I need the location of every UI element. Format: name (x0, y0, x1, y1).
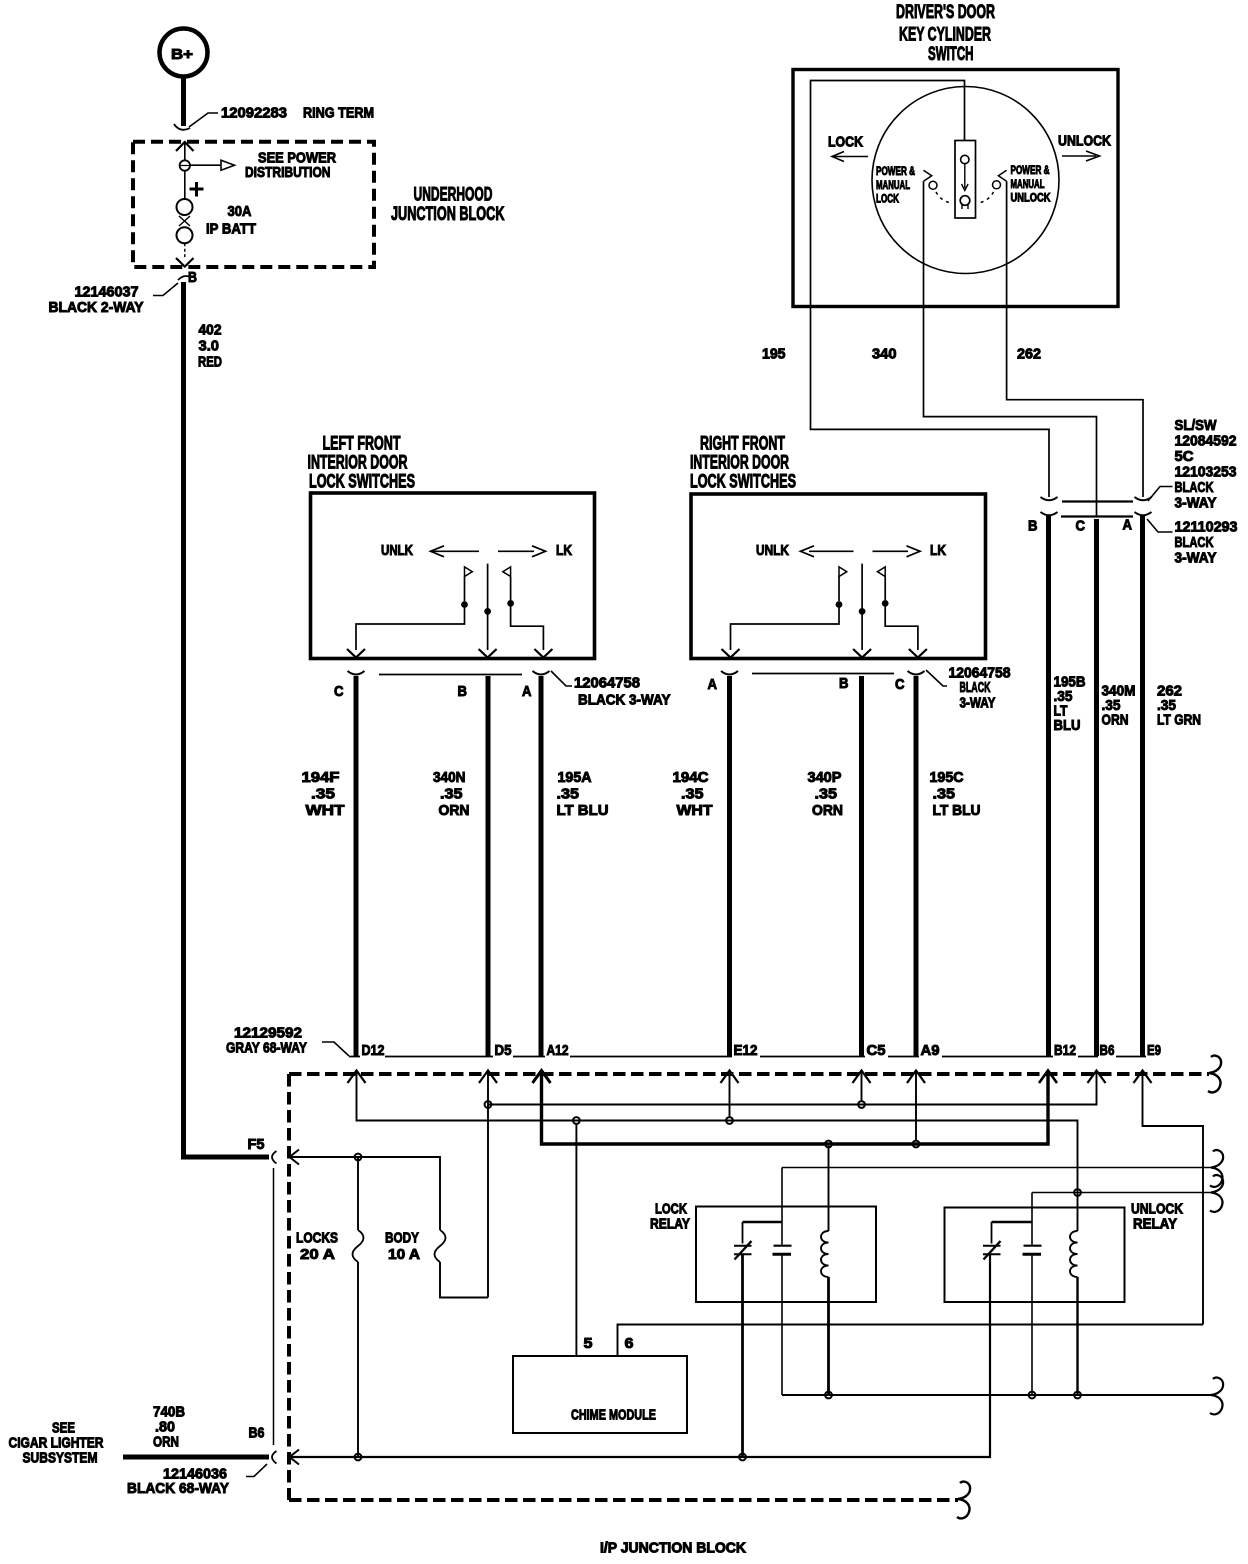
wire 262 from unlock contact to connector A (1007, 181, 1143, 497)
svg-text:INTERIOR DOOR: INTERIOR DOOR (690, 453, 789, 474)
unlock relay coil (1070, 1231, 1078, 1395)
junction dot C5 tap (858, 1101, 865, 1108)
key cylinder switch box (793, 70, 1118, 307)
connector 12110293 3-way (lower half) (1041, 512, 1152, 517)
svg-text:DISTRIBUTION: DISTRIBUTION (245, 164, 331, 181)
terminal arrow A9 (907, 1071, 925, 1084)
net A12/A9/B12 lock signal wire (542, 1071, 1049, 1145)
right box common wire (center pole) (859, 564, 866, 650)
wire 195A .35 LT BLU (left A to IP A12) (539, 676, 544, 1056)
svg-text:.35: .35 (440, 786, 463, 803)
underhood junction block dashed box (133, 142, 374, 267)
wire fuse to bottom terminal (dotted) (184, 243, 186, 258)
svg-text:GRAY 68-WAY: GRAY 68-WAY (226, 1040, 307, 1057)
svg-text:RING TERM: RING TERM (303, 105, 374, 122)
junction dot chime pin5 tap (573, 1117, 580, 1124)
svg-text:.35: .35 (815, 786, 838, 803)
svg-text:BLACK 3-WAY: BLACK 3-WAY (578, 692, 671, 709)
svg-text:402: 402 (199, 322, 222, 339)
key shaft with arrow (962, 164, 969, 191)
svg-text:ORN: ORN (439, 802, 470, 819)
wire label 262 .35 LT GRN (1157, 683, 1201, 729)
wire A9 stub (915, 1071, 917, 1141)
svg-text:ORN: ORN (153, 1434, 179, 1451)
svg-text:POWER &: POWER & (1011, 163, 1050, 177)
label 12110293 BLACK 3-WAY + leader (1147, 519, 1238, 567)
svg-text:LT BLU: LT BLU (933, 802, 981, 819)
svg-text:BLACK: BLACK (960, 679, 991, 696)
svg-text:LEFT FRONT: LEFT FRONT (323, 434, 401, 455)
wire 185 inside switch (common feed to key) (811, 81, 965, 307)
UNLOCK RELAY label (1131, 1201, 1183, 1233)
wire from B+ to underhood junction block (ring terminal end) (174, 76, 190, 130)
fuse label LOCKS 20 A (296, 1230, 338, 1264)
label 12064758 BLACK 3-WAY (left) + leader (551, 671, 671, 709)
left box lock branch wire to terminal A (511, 606, 544, 650)
svg-text:12084592: 12084592 (1175, 433, 1237, 450)
wire chime module pin 6 to E9 (618, 1325, 1204, 1357)
battery terminal B+ (160, 29, 208, 77)
wire label 195B .35 LT BLU (1054, 674, 1086, 735)
lock relay capacitor (773, 1168, 792, 1396)
fuse LOCKS 20A (353, 1230, 364, 1262)
svg-text:LOCK SWITCHES: LOCK SWITCHES (309, 472, 415, 493)
svg-text:.35: .35 (311, 786, 335, 803)
svg-text:F5: F5 (248, 1136, 265, 1153)
svg-text:12110293: 12110293 (1175, 519, 1238, 536)
svg-text:3-WAY: 3-WAY (960, 695, 996, 712)
terminal arrow D12 (348, 1071, 366, 1084)
unlock relay capacitor (1023, 1193, 1042, 1396)
POWER & MANUAL UNLOCK label (1011, 163, 1051, 205)
left box UNLK label + arrow (381, 542, 479, 559)
svg-text:SL/SW: SL/SW (1175, 417, 1218, 434)
lock relay switch contact (734, 1222, 752, 1260)
svg-text:WHT: WHT (677, 802, 713, 819)
LEFT FRONT INTERIOR DOOR LOCK SWITCHES title (308, 434, 416, 493)
fuse BODY 10A (435, 1230, 446, 1262)
svg-text:195: 195 (762, 346, 786, 363)
svg-text:B+: B+ (171, 46, 193, 63)
svg-text:3-WAY: 3-WAY (1175, 550, 1217, 567)
wire 402 3.0 RED (battery feed to F5) (178, 276, 269, 1157)
svg-text:262: 262 (1017, 346, 1041, 363)
svg-text:B6: B6 (249, 1425, 265, 1442)
svg-text:12146037: 12146037 (75, 284, 139, 301)
right box UNLK label + arrow (756, 542, 854, 559)
circuit break symbol at top dashed edge (1208, 1056, 1221, 1093)
svg-text:5C: 5C (1175, 448, 1194, 465)
wire splice to fuse (184, 171, 186, 199)
wire F5 feed to fuses (291, 1157, 440, 1230)
wire 194F .35 WHT (left C to IP D12) (354, 676, 359, 1056)
junction dot unlock cap ground (1029, 1392, 1036, 1399)
svg-text:LT GRN: LT GRN (1157, 712, 1201, 729)
terminal arrow B6 (1088, 1071, 1106, 1084)
wire 740B .80 ORN (cigar lighter feed) (123, 1455, 269, 1460)
connector 12092283 RING TERM label + leader (189, 105, 374, 128)
IP junction block dashed outline (left edge) (287, 1074, 291, 1500)
chime module box (513, 1356, 687, 1433)
wire 340P .35 ORN (right B to IP C5) (859, 676, 864, 1056)
connector cap at F5 (272, 1151, 277, 1164)
unlock contact (flag + contact circle + dashed travel arc) (979, 170, 1007, 203)
svg-text:D5: D5 (495, 1042, 512, 1059)
fuse label BODY 10 A (385, 1230, 420, 1264)
right front door lock switch box (691, 494, 986, 659)
wire label 740B .80 ORN (153, 1404, 185, 1451)
label 12064758 BLACK 3-WAY (right) + leader (926, 665, 1011, 712)
POWER & MANUAL LOCK label (876, 164, 915, 206)
wire 194C .35 WHT (right A to IP E12) (727, 676, 732, 1056)
svg-text:10 A: 10 A (388, 1246, 420, 1263)
key cylinder rotary face circle (872, 87, 1059, 274)
svg-text:JUNCTION BLOCK: JUNCTION BLOCK (391, 204, 505, 225)
svg-text:C: C (895, 676, 905, 693)
wire locks fuse to B6 row (357, 1262, 359, 1457)
terminal arrow E9 (1134, 1071, 1152, 1084)
fuse label 30A IP BATT (206, 203, 256, 238)
svg-text:BLACK: BLACK (1175, 479, 1214, 496)
net B6/locks-fuse/relay-commons wire (291, 1255, 990, 1457)
svg-text:3.0: 3.0 (199, 338, 220, 355)
junction dot unlock coil ground (1074, 1392, 1081, 1399)
wire inside junction block to splice (184, 142, 186, 161)
junction dot A9 tap (913, 1141, 920, 1148)
connector 12064758 3-way below left box (348, 671, 550, 675)
svg-text:MANUAL: MANUAL (1011, 177, 1045, 191)
svg-text:B: B (839, 675, 849, 692)
svg-text:BODY: BODY (385, 1230, 419, 1247)
svg-text:BLU: BLU (1054, 717, 1081, 734)
wire body fuse return to D5 (440, 1262, 488, 1298)
wire 195B .35 LT BLU (key switch B to IP B12) (1046, 516, 1051, 1056)
left box LK label + arrow (498, 542, 572, 559)
terminal arrow into junction block (top) (176, 142, 194, 151)
connector 12146037 BLACK 2-WAY label + leader (49, 283, 179, 316)
svg-text:30A: 30A (228, 203, 252, 220)
lock relay switch-capacitor tie wire (743, 1221, 783, 1223)
svg-text:SUBSYSTEM: SUBSYSTEM (23, 1450, 98, 1467)
junction dot D5 courtesy net (485, 1101, 492, 1108)
svg-text:BLACK 2-WAY: BLACK 2-WAY (49, 299, 144, 316)
svg-text:ORN: ORN (1102, 712, 1129, 729)
svg-text:5: 5 (584, 1335, 593, 1352)
F5 terminal arrow (power feed into block) (290, 1150, 300, 1165)
svg-text:INTERIOR DOOR: INTERIOR DOOR (308, 453, 408, 474)
svg-text:C: C (1076, 518, 1086, 535)
svg-text:RIGHT FRONT: RIGHT FRONT (700, 434, 785, 455)
svg-text:C5: C5 (867, 1042, 886, 1059)
lock relay coil (821, 1146, 829, 1395)
svg-text:.35: .35 (933, 786, 956, 803)
svg-text:BLACK 68-WAY: BLACK 68-WAY (127, 1480, 229, 1497)
svg-text:SWITCH: SWITCH (928, 44, 974, 65)
label SL/SW 12084592 5C 12103253 BLACK 3-WAY + leader (1148, 417, 1237, 512)
wire label 402 3.0 RED (198, 322, 222, 371)
svg-text:12103253: 12103253 (1175, 464, 1237, 481)
svg-text:12064758: 12064758 (574, 675, 640, 692)
svg-text:ORN: ORN (812, 802, 843, 819)
arrow to SEE POWER DISTRIBUTION (190, 160, 235, 170)
circuit break symbol at bottom dashed edge (957, 1482, 970, 1519)
junction dot unlock coil to node (1074, 1189, 1081, 1196)
svg-text:A: A (522, 683, 532, 700)
wire label 194C .35 WHT (673, 769, 713, 819)
left box unlock branch wire to terminal C (356, 607, 465, 650)
svg-text:LOCKS: LOCKS (296, 1230, 338, 1247)
IP junction block dashed outline (bottom edge) (289, 1498, 958, 1502)
svg-text:I/P JUNCTION BLOCK: I/P JUNCTION BLOCK (600, 1540, 746, 1557)
wire 340M .35 ORN (key switch C to IP B6) (1094, 519, 1099, 1056)
wire label 340N .35 ORN (433, 769, 470, 819)
terminal arrow E12 (721, 1071, 739, 1084)
wire 340N .35 ORN (left B to IP D5) (486, 676, 491, 1056)
IP connector face line (gray 68-way row) (349, 1056, 1146, 1058)
wire C5 stub (861, 1071, 863, 1102)
svg-text:195A: 195A (558, 769, 592, 786)
net D5/C5/B6 courtesy wire (488, 1071, 1097, 1105)
junction dot E12 tap (726, 1117, 733, 1124)
junction dot lock relay switch to B6 line (739, 1454, 746, 1461)
LOCK label + left arrow (828, 134, 868, 162)
wire label 340P .35 ORN (808, 769, 844, 819)
lock relay box (696, 1207, 876, 1303)
circuit break symbol lock output (1210, 1150, 1223, 1187)
terminal arrow A12 (533, 1071, 551, 1084)
right box unlock branch wire to terminal A (731, 607, 840, 650)
wire lock relay output to door motors (off-page) (782, 1167, 1211, 1169)
key pivot circle (961, 155, 969, 163)
svg-text:MANUAL: MANUAL (876, 178, 910, 192)
svg-text:194F: 194F (302, 769, 340, 786)
svg-text:20 A: 20 A (300, 1246, 335, 1263)
SEE CIGAR LIGHTER SUBSYSTEM label (9, 1420, 104, 1467)
wire lock relay switch to B6 net (741, 1255, 744, 1457)
wire D5 stub down to body fuse return (487, 1071, 489, 1298)
svg-text:B: B (1028, 518, 1038, 535)
wire 195C .35 LT BLU (right C to IP A9) (914, 676, 919, 1056)
svg-text:3-WAY: 3-WAY (1175, 495, 1217, 512)
lock contact (flag + contact circle + dashed travel arc) (924, 170, 952, 203)
left front door lock switch box (311, 493, 595, 659)
left box terminal arrows at box bottom (347, 649, 552, 658)
svg-text:340P: 340P (808, 769, 842, 786)
svg-text:E12: E12 (734, 1042, 758, 1059)
junction dot lock relay coil tap (825, 1141, 832, 1148)
wire label 340M .35 ORN (1102, 683, 1136, 729)
left box lock switch contact (flag, pole, junction) (503, 567, 514, 607)
terminal arrow out of junction block (bottom) (176, 258, 194, 267)
svg-text:C: C (334, 683, 344, 700)
junction dot lock coil ground (825, 1392, 832, 1399)
svg-text:DRIVER'S DOOR: DRIVER'S DOOR (896, 2, 995, 23)
svg-text:340: 340 (872, 346, 897, 363)
svg-text:LT BLU: LT BLU (557, 802, 609, 819)
svg-text:340N: 340N (433, 769, 466, 786)
wire unlock relay node to off-page (with coil junction) (1032, 1192, 1211, 1194)
wire chime module pin 5 feed (575, 1124, 577, 1356)
svg-text:KEY CYLINDER: KEY CYLINDER (899, 25, 991, 46)
svg-text:E9: E9 (1147, 1042, 1161, 1059)
svg-text:12092283: 12092283 (221, 105, 287, 122)
wire 185 from switch to connector B (811, 307, 1050, 498)
SEE POWER DISTRIBUTION label (245, 150, 336, 181)
label 12129592 GRAY 68-WAY + leader (226, 1025, 349, 1057)
svg-text:RELAY: RELAY (1133, 1216, 1177, 1233)
unlock relay switch contact (983, 1222, 1001, 1260)
right box unlock switch contact (flag, pole, junction) (836, 567, 847, 608)
left box common wire (center pole) (484, 564, 491, 650)
DRIVER'S DOOR KEY CYLINDER SWITCH title (896, 2, 995, 65)
svg-text:LOCK: LOCK (876, 192, 899, 206)
connector 12064758 3-way below right box (721, 671, 925, 675)
svg-text:B: B (458, 683, 468, 700)
svg-text:UNLOCK: UNLOCK (1058, 133, 1111, 150)
RIGHT FRONT INTERIOR DOOR LOCK SWITCHES title (690, 434, 796, 493)
B6 terminal arrow (output to cigar lighter feed) (290, 1450, 300, 1465)
svg-text:LOCK: LOCK (828, 134, 863, 151)
svg-text:A9: A9 (921, 1042, 940, 1059)
svg-text:CHIME MODULE: CHIME MODULE (571, 1407, 656, 1424)
svg-text:BLACK: BLACK (1175, 534, 1214, 551)
svg-text:IP BATT: IP BATT (206, 221, 256, 238)
circuit break symbol ground return (1210, 1378, 1223, 1415)
svg-text:LK: LK (930, 542, 946, 559)
wire label 195A .35 LT BLU (557, 769, 609, 819)
svg-text:RELAY: RELAY (650, 1216, 690, 1233)
svg-text:195C: 195C (930, 769, 964, 786)
terminal arrow C5 (853, 1071, 871, 1084)
svg-text:6: 6 (625, 1335, 634, 1352)
svg-text:LOCK SWITCHES: LOCK SWITCHES (690, 472, 796, 493)
UNLOCK label + right arrow (1058, 133, 1111, 162)
svg-text:LK: LK (556, 542, 572, 559)
wire E12 stub (729, 1071, 731, 1118)
svg-text:UNDERHOOD: UNDERHOOD (414, 185, 493, 206)
svg-text:194C: 194C (673, 769, 709, 786)
svg-text:UNLK: UNLK (381, 542, 413, 559)
net relay ground return wire (off-page) (782, 1394, 1211, 1396)
label 12146036 BLACK 68-WAY + leader (127, 1464, 267, 1497)
connector face line 12146036 (F5 to B6) (273, 1168, 275, 1445)
right box terminal arrows at box bottom (722, 649, 927, 658)
svg-text:A: A (1123, 517, 1133, 534)
svg-text:D12: D12 (362, 1042, 385, 1059)
unlock relay switch-capacitor tie wire (992, 1221, 1033, 1223)
wire E9 to chime module pin 6 (1143, 1071, 1204, 1325)
junction dot locks fuse tap (355, 1154, 362, 1161)
terminal arrow B12 (1039, 1071, 1057, 1084)
IP junction block dashed outline (top edge) (289, 1072, 1209, 1076)
svg-text:WHT: WHT (306, 802, 345, 819)
svg-text:.35: .35 (681, 786, 704, 803)
right box LK label + arrow (873, 542, 947, 559)
unlock relay box (945, 1208, 1125, 1303)
key slot rectangle (955, 141, 976, 219)
junction dot locks fuse to B6 line (355, 1454, 362, 1461)
underhood junction block label (391, 185, 505, 226)
svg-text:A: A (708, 676, 718, 693)
svg-text:POWER &: POWER & (876, 164, 915, 178)
polarity + mark (190, 182, 204, 197)
wire locks fuse branch (top) (357, 1157, 359, 1230)
connector SL/SW 12084592 3-way (upper half) (1041, 497, 1152, 502)
net D12/E12 unlock signal wire (to chime 5 and unlock relay coil) (357, 1071, 1078, 1232)
svg-text:RED: RED (198, 354, 222, 371)
terminal arrow D5 (479, 1071, 497, 1084)
key head glyph (960, 196, 970, 209)
svg-text:UNLK: UNLK (756, 542, 789, 559)
svg-text:.35: .35 (557, 786, 580, 803)
right box lock switch contact (flag, pole, junction) (877, 567, 888, 607)
svg-text:B6: B6 (1100, 1042, 1115, 1059)
left box unlock switch contact (flag, pole, junction) (461, 567, 472, 608)
svg-text:B12: B12 (1054, 1042, 1076, 1059)
svg-text:UNLOCK: UNLOCK (1011, 191, 1051, 205)
connector cap at B6 (272, 1451, 277, 1464)
LOCK RELAY label (650, 1201, 690, 1233)
fuse 30A IP BATT (two-circle fuse symbol) (177, 199, 193, 243)
wire label 194F .35 WHT (302, 769, 345, 819)
wire 262 .35 LT GRN (key switch A to IP E9) (1140, 516, 1145, 1056)
splice node (see power distribution tap) (180, 160, 190, 170)
wire 340 from lock contact to connector C (924, 181, 1097, 516)
svg-text:A12: A12 (547, 1042, 569, 1059)
right box lock branch wire to terminal C (885, 606, 918, 650)
wire label 195C .35 LT BLU (930, 769, 981, 819)
circuit break symbol unlock output (1210, 1175, 1223, 1212)
